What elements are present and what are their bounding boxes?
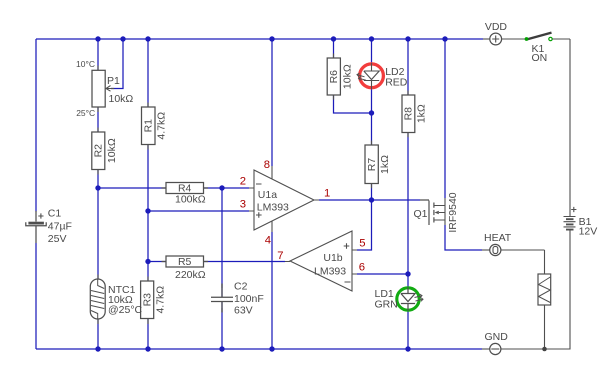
- wire: node A to R4 left: [98, 187, 166, 189]
- resistor R6 body: [327, 58, 340, 95]
- wire: U1b pin6 line: [357, 273, 408, 275]
- svg-text:R5: R5: [178, 256, 192, 268]
- wire: switch to battery (right rail): [569, 39, 571, 217]
- svg-text:4.7kΩ: 4.7kΩ: [155, 286, 167, 314]
- svg-text:47µF: 47µF: [48, 221, 72, 233]
- LED LD1 (green ring): [397, 287, 423, 311]
- node pin6/R8/LD1: [405, 271, 410, 276]
- wire: LD2 top lead from bus: [371, 39, 373, 63]
- svg-text:2: 2: [240, 176, 246, 188]
- LED LD2 (red ring): [357, 63, 383, 89]
- MOSFET Q1 (IRF9540): [420, 198, 445, 225]
- switch K1: [525, 33, 570, 41]
- svg-text:5: 5: [359, 238, 365, 250]
- svg-text:Q1: Q1: [414, 208, 428, 220]
- wire: R5 right to U1b pin7: [204, 261, 286, 263]
- resistor R4 body: [166, 183, 204, 194]
- svg-text:C1: C1: [48, 208, 62, 220]
- wire: R1 bottom vertical to R3: [147, 145, 149, 282]
- svg-text:10kΩ: 10kΩ: [109, 93, 134, 105]
- component lead stubs (gray): [98, 54, 408, 325]
- wire: Q1 drain to HEAT terminal: [445, 225, 482, 250]
- svg-text:R7: R7: [366, 158, 378, 172]
- wire: U1a pin4 to ground bus: [271, 232, 273, 349]
- wire: R8 top lead from bus: [407, 39, 409, 95]
- svg-text:10°C: 10°C: [76, 59, 95, 69]
- wire: R5 left lead from R1 net: [148, 261, 166, 263]
- node A divider/NTC: [95, 185, 100, 190]
- wire: R8 bottom to pin6 node: [407, 133, 409, 288]
- wire: C2 bottom to ground bus: [221, 302, 223, 349]
- resistor R7 body: [365, 145, 378, 184]
- terminal GND: [482, 343, 501, 354]
- svg-text:IRF9540: IRF9540: [447, 192, 459, 232]
- svg-text:10kΩ: 10kΩ: [106, 138, 118, 163]
- svg-text:100nF: 100nF: [234, 293, 264, 305]
- svg-text:P1: P1: [107, 75, 120, 87]
- svg-text:U1a: U1a: [258, 189, 277, 201]
- wire: R4 right to U1a pin2: [204, 187, 250, 189]
- op-amp U1b triangle: [285, 231, 357, 291]
- capacitor C2: [211, 284, 233, 313]
- wire: left vertical bus lower: [35, 243, 37, 349]
- heater element: [538, 250, 551, 349]
- wire: pin5 riser from output node: [357, 200, 372, 250]
- wire: node B vertical to C2 top: [221, 188, 223, 297]
- wire: P1 top lead from bus: [97, 39, 99, 70]
- svg-text:8: 8: [264, 159, 270, 171]
- wire: R2 bottom to node A: [97, 169, 99, 188]
- thermistor NTC1 body: [90, 279, 105, 319]
- svg-text:4: 4: [265, 235, 271, 247]
- svg-text:LM393: LM393: [257, 201, 289, 213]
- svg-text:25V: 25V: [48, 233, 67, 245]
- svg-text:R3: R3: [142, 293, 154, 307]
- svg-text:GRN: GRN: [375, 299, 398, 311]
- svg-text:@25°C: @25°C: [108, 304, 143, 316]
- svg-text:RED: RED: [385, 77, 408, 89]
- node R5 tap: [145, 259, 150, 264]
- svg-text:R2: R2: [93, 144, 105, 158]
- svg-text:220kΩ: 220kΩ: [175, 269, 206, 281]
- svg-text:7: 7: [277, 250, 283, 262]
- svg-text:HEAT: HEAT: [484, 232, 512, 244]
- wire: pin3 line from R1 net: [148, 210, 249, 212]
- svg-text:25°C: 25°C: [76, 108, 95, 118]
- wire: Q1 source from bus: [444, 39, 446, 198]
- svg-text:1: 1: [324, 188, 330, 200]
- resistor R8 body: [402, 95, 415, 133]
- svg-text:R6: R6: [328, 70, 340, 84]
- svg-text:LM393: LM393: [314, 266, 346, 278]
- svg-text:R1: R1: [143, 119, 155, 133]
- svg-text:1kΩ: 1kΩ: [416, 104, 428, 123]
- wire: R7 bottom to output node: [371, 184, 373, 201]
- VDD supply symbol: [483, 33, 525, 45]
- resistor R5 body: [166, 256, 204, 267]
- svg-text:C2: C2: [234, 281, 248, 293]
- resistor R3 body: [141, 281, 154, 319]
- wire: P1 wiper to top bus: [111, 39, 123, 89]
- svg-text:6: 6: [359, 262, 365, 274]
- wire: R1 top lead from bus: [147, 39, 149, 107]
- terminal HEAT: [482, 244, 545, 255]
- svg-text:R8: R8: [403, 107, 415, 121]
- node: top bus junctions: [95, 36, 100, 41]
- wire: LD2 cathode to node, down to R7: [371, 89, 373, 145]
- battery B1: [564, 207, 577, 230]
- node pin3 tap: [145, 208, 150, 213]
- wire: node A to NTC1 top: [97, 188, 99, 279]
- wire: R6 top lead from bus: [333, 39, 335, 58]
- node output U1a: [369, 197, 374, 202]
- svg-text:U1b: U1b: [323, 252, 342, 264]
- wire: R6 bottom elbow to LED node: [334, 95, 372, 113]
- wire: R3 bottom to ground bus: [147, 319, 149, 349]
- op-amp U1a triangle: [249, 166, 319, 232]
- svg-text:10kΩ: 10kΩ: [341, 64, 353, 89]
- svg-text:12V: 12V: [579, 226, 598, 238]
- wire: P1 bottom to R2 top: [97, 107, 99, 132]
- wire: U1a pin8 supply from bus: [271, 39, 273, 166]
- node: bottom bus junctions: [95, 346, 100, 351]
- resistor R2 body: [92, 132, 105, 170]
- svg-text:VDD: VDD: [485, 21, 508, 33]
- svg-text:4.7kΩ: 4.7kΩ: [156, 112, 168, 140]
- resistor R1 body: [142, 107, 156, 145]
- svg-text:100kΩ: 100kΩ: [175, 194, 206, 206]
- wire: top VDD bus: [36, 38, 483, 40]
- wire: NTC1 bottom to ground bus: [97, 319, 99, 349]
- node R6/LD2: [369, 110, 374, 115]
- potentiometer P1 body: [92, 70, 111, 107]
- svg-text:GND: GND: [485, 331, 509, 343]
- wire: left vertical bus upper: [35, 39, 37, 212]
- wire: U1a output pin1: [319, 199, 420, 201]
- capacitor C1 (polarized): [26, 211, 46, 243]
- svg-text:3: 3: [240, 199, 246, 211]
- svg-text:63V: 63V: [234, 305, 253, 317]
- wire: bottom ground bus: [36, 348, 482, 350]
- svg-text:ON: ON: [532, 52, 548, 64]
- wire: LD1 cathode to ground bus: [407, 311, 409, 349]
- svg-text:1kΩ: 1kΩ: [379, 155, 391, 174]
- node heater/GND rail: [542, 347, 547, 352]
- node B R4/C2/pin2: [219, 185, 224, 190]
- wire: battery to bottom right corner: [501, 230, 570, 350]
